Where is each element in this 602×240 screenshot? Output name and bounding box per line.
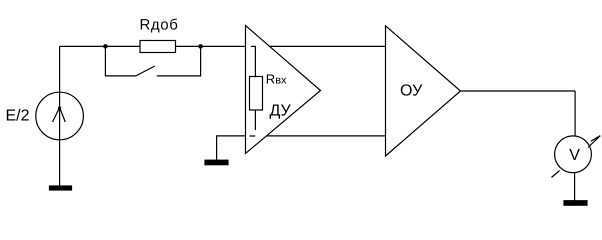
svg-text:ДУ: ДУ	[270, 103, 292, 120]
wire DU to OU top	[270, 45, 386, 47]
wire voltmeter to ground	[574, 173, 576, 201]
wire output horizontal	[461, 90, 576, 92]
minus mark top input	[251, 45, 256, 47]
svg-text:Rдоб: Rдоб	[140, 17, 179, 34]
wire top left	[60, 45, 140, 47]
node A junction	[103, 44, 108, 49]
voltage source E/2	[36, 92, 84, 140]
switch blade	[136, 66, 155, 76]
variability arrow shaft	[588, 136, 600, 148]
wire ground to DU input	[217, 136, 246, 160]
svg-text:ОУ: ОУ	[400, 83, 423, 100]
resistor Rвх	[250, 77, 263, 111]
ground	[205, 160, 228, 165]
svg-text:V: V	[569, 147, 580, 164]
svg-text:E/2: E/2	[6, 108, 30, 125]
op-amp OU triangle	[386, 26, 461, 156]
variability arrow stub lower-left	[552, 171, 560, 178]
wire output vertical	[574, 91, 576, 136]
switch right lead	[157, 46, 201, 76]
ground	[564, 201, 587, 206]
ground	[50, 186, 72, 190]
wire input to Rvx	[254, 47, 256, 77]
variability arrow head	[591, 136, 600, 142]
arrow of current source	[53, 106, 66, 122]
wire source vertical	[59, 46, 61, 186]
wire top mid	[176, 45, 246, 47]
minus mark bottom input	[250, 135, 256, 137]
wire DU to OU bottom	[267, 135, 386, 137]
node B junction	[198, 44, 203, 49]
resistor Rдоб	[140, 41, 176, 53]
switch left lead	[105, 46, 135, 76]
op-amp DU triangle	[246, 26, 321, 154]
wire below Rvx	[254, 110, 256, 130]
voltmeter V	[555, 136, 592, 173]
svg-text:Rвх: Rвх	[266, 72, 287, 87]
